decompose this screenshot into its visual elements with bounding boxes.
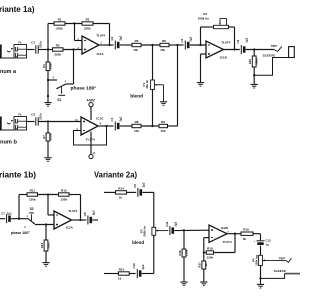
svg-text:1k: 1k xyxy=(119,196,123,200)
svg-text:C6: C6 xyxy=(236,39,240,43)
svg-text:15k: 15k xyxy=(160,129,165,133)
svg-text:510k: 510k xyxy=(184,249,188,256)
svg-text:num a: num a xyxy=(0,69,16,75)
svg-text:R3: R3 xyxy=(56,43,60,47)
svg-text:15k: 15k xyxy=(134,129,139,133)
svg-text:R7: R7 xyxy=(42,135,46,139)
svg-text:2µ2: 2µ2 xyxy=(119,116,123,121)
svg-text:120k: 120k xyxy=(207,255,214,259)
svg-text:1k: 1k xyxy=(118,277,122,281)
svg-text:C1: C1 xyxy=(31,41,35,45)
svg-text:C8: C8 xyxy=(83,212,87,216)
svg-text:IC1A: IC1A xyxy=(97,52,105,56)
svg-text:R10: R10 xyxy=(248,58,252,64)
svg-text:phase 180°: phase 180° xyxy=(71,86,97,91)
svg-text:120k: 120k xyxy=(60,198,67,202)
svg-text:C7: C7 xyxy=(1,212,5,216)
svg-text:R2: R2 xyxy=(86,17,90,21)
svg-text:+9V: +9V xyxy=(86,97,95,102)
svg-text:R6: R6 xyxy=(162,39,166,43)
svg-text:riante 1b): riante 1b) xyxy=(0,170,36,179)
svg-text:SLEEVE: SLEEVE xyxy=(274,269,286,273)
svg-text:TL074: TL074 xyxy=(223,240,232,244)
svg-text:Ts: Ts xyxy=(18,40,22,44)
svg-text:1k: 1k xyxy=(204,263,208,267)
svg-text:TIP: TIP xyxy=(279,256,286,260)
svg-text:R11: R11 xyxy=(30,188,36,192)
svg-text:120k: 120k xyxy=(29,198,36,202)
svg-text:100k: 100k xyxy=(46,242,50,249)
svg-text:15k: 15k xyxy=(133,48,138,52)
svg-text:IC2A: IC2A xyxy=(66,225,74,229)
svg-text:S2: S2 xyxy=(30,207,34,211)
svg-text:TL074: TL074 xyxy=(68,209,77,213)
svg-text:R13: R13 xyxy=(40,242,44,248)
svg-text:100k: 100k xyxy=(48,133,52,140)
svg-text:Ts: Ts xyxy=(18,112,22,116)
svg-text:R15: R15 xyxy=(119,267,125,271)
svg-text:R4: R4 xyxy=(42,64,46,68)
svg-text:2µ2: 2µ2 xyxy=(245,37,249,42)
svg-text:500k lin: 500k lin xyxy=(143,226,147,237)
svg-text:P2: P2 xyxy=(203,12,207,16)
svg-text:blend: blend xyxy=(132,240,144,245)
svg-text:C5: C5 xyxy=(180,38,184,42)
svg-text:R14: R14 xyxy=(118,186,124,190)
svg-text:R19: R19 xyxy=(243,228,249,232)
svg-text:C10: C10 xyxy=(132,263,136,269)
svg-text:100k: 100k xyxy=(255,58,259,65)
svg-text:R9: R9 xyxy=(161,120,165,124)
svg-text:SLEEVE: SLEEVE xyxy=(263,53,276,57)
svg-text:R18: R18 xyxy=(207,247,213,251)
svg-text:Variante 2a): Variante 2a) xyxy=(94,170,137,179)
svg-text:R1: R1 xyxy=(58,17,62,21)
svg-text:phase 180°: phase 180° xyxy=(11,231,31,235)
svg-text:2µ2: 2µ2 xyxy=(189,36,193,41)
svg-text:TIP: TIP xyxy=(271,44,278,48)
svg-text:220n: 220n xyxy=(38,113,42,120)
svg-text:100k lin: 100k lin xyxy=(198,16,209,20)
svg-text:2µ2: 2µ2 xyxy=(92,210,96,215)
svg-text:R16: R16 xyxy=(178,250,182,256)
svg-text:100k: 100k xyxy=(48,63,52,70)
svg-text:IC1B: IC1B xyxy=(220,56,228,60)
svg-text:IC1C: IC1C xyxy=(96,117,104,121)
svg-text:C3: C3 xyxy=(31,113,35,117)
svg-text:R12: R12 xyxy=(61,188,67,192)
svg-text:R8: R8 xyxy=(135,120,139,124)
svg-text:blend: blend xyxy=(130,93,143,98)
svg-text:R17: R17 xyxy=(198,262,202,268)
svg-text:riante 1a): riante 1a) xyxy=(0,5,35,14)
svg-text:2µ2: 2µ2 xyxy=(7,212,12,216)
svg-text:220k: 220k xyxy=(56,27,63,31)
svg-text:TL074: TL074 xyxy=(221,40,230,44)
svg-text:15k: 15k xyxy=(160,48,165,52)
svg-text:TL074: TL074 xyxy=(86,137,95,141)
svg-text:1µ: 1µ xyxy=(265,243,269,247)
svg-text:TL074: TL074 xyxy=(96,34,105,38)
svg-text:220k: 220k xyxy=(84,27,91,31)
svg-text:S1: S1 xyxy=(57,98,61,102)
svg-text:15k lin: 15k lin xyxy=(145,80,149,89)
svg-text:C9: C9 xyxy=(133,184,137,188)
svg-text:220k: 220k xyxy=(54,53,61,57)
svg-text:220n: 220n xyxy=(38,41,42,48)
svg-text:R5: R5 xyxy=(135,39,139,43)
svg-text:C4: C4 xyxy=(110,117,114,121)
svg-text:IC2B: IC2B xyxy=(221,226,229,230)
svg-text:2µ2: 2µ2 xyxy=(141,264,145,269)
svg-text:100k log: 100k log xyxy=(254,255,258,266)
svg-text:num b: num b xyxy=(0,140,17,146)
svg-text:2µ2: 2µ2 xyxy=(174,221,178,226)
svg-text:5k: 5k xyxy=(243,237,247,241)
svg-text:C11: C11 xyxy=(165,221,169,227)
svg-text:2µ2: 2µ2 xyxy=(142,182,146,187)
svg-text:2µ2: 2µ2 xyxy=(119,35,123,40)
